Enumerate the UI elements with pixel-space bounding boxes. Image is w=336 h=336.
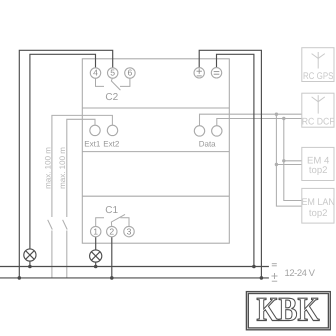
svg-text:C1: C1 <box>105 205 118 216</box>
data drop wire B to EM4/EMLAN <box>284 119 302 201</box>
svg-text:4: 4 <box>93 68 98 78</box>
svg-text:1: 1 <box>93 226 98 236</box>
svg-text:top2: top2 <box>309 165 328 176</box>
wire lamp E2 to bus1 <box>95 262 97 267</box>
ext cable A (to Ext2) with break <box>48 115 113 278</box>
junction dot bus2/terminal2 wire <box>110 276 114 280</box>
junction dot bus2/right outer rail <box>260 276 264 280</box>
junction dot bus1/lamp E1 <box>28 265 32 269</box>
svg-text:max. 100 m: max. 100 m <box>58 147 67 189</box>
svg-text:top2: top2 <box>309 208 328 219</box>
junction dot data B top <box>282 117 285 120</box>
junction dot data A top <box>275 113 278 116</box>
svg-text:RC DCF: RC DCF <box>302 116 335 127</box>
terminal ± <box>194 68 204 78</box>
divider row1/row2 <box>82 107 229 109</box>
box EM 4 top2 <box>302 147 334 180</box>
junction dot bus2/left rail <box>18 276 22 280</box>
junction dot bus1/lamp E2 <box>94 265 98 269</box>
data drop wire A to EM4/EMLAN <box>276 114 301 206</box>
lamp E1 <box>24 249 36 261</box>
lamp E2 <box>90 250 102 262</box>
box RC GPS <box>302 48 334 82</box>
terminal Ext1 <box>90 125 100 135</box>
junction dot branch A EM4 <box>275 163 278 166</box>
svg-text:max. 100 m: max. 100 m <box>43 147 52 189</box>
wire terminal1 to lamp E2 <box>95 237 97 250</box>
terminal 2 <box>107 226 117 237</box>
terminal Data2 <box>212 126 222 136</box>
terminal Ext2 <box>107 125 117 135</box>
svg-text:5: 5 <box>110 68 115 78</box>
terminal 3 <box>124 226 134 237</box>
ext cable B (to Ext1) with break <box>63 119 95 278</box>
antenna RC GPS <box>312 52 325 69</box>
svg-text:Data: Data <box>199 140 216 149</box>
data wire A to RC DCF <box>200 114 302 126</box>
junction dot bus1/right inner rail <box>252 265 256 269</box>
bus2 ± rail <box>0 277 269 279</box>
antenna RC DCF <box>312 95 325 113</box>
junction dot branch B EM4 <box>282 159 285 162</box>
svg-text:C2: C2 <box>105 92 118 103</box>
svg-text:EM LAN: EM LAN <box>301 197 335 208</box>
box RC DCF <box>302 93 334 127</box>
svg-text:Ext2: Ext2 <box>103 140 120 149</box>
rail symbol ± at bus2 end <box>272 273 278 281</box>
terminal Data1 <box>194 126 204 136</box>
svg-text:KBK: KBK <box>257 292 320 329</box>
terminal 1 <box>91 226 101 237</box>
terminal DC <box>211 68 221 78</box>
terminal 5 <box>108 68 118 79</box>
svg-text:6: 6 <box>128 68 133 78</box>
wire terminal4 to left inner rail (upper part) <box>30 54 96 249</box>
data branch A to EM4 <box>276 164 301 166</box>
contact C1 <box>96 214 129 226</box>
wire lamp E1 to bus1 <box>29 261 31 267</box>
logo KBK frame <box>246 292 330 330</box>
svg-text:RC GPS: RC GPS <box>303 71 334 82</box>
svg-text:Ext1: Ext1 <box>84 140 101 149</box>
svg-text:12-24 V: 12-24 V <box>285 268 316 279</box>
svg-text:2: 2 <box>109 226 114 236</box>
box EM LAN top2 <box>302 188 334 223</box>
data wire B to RC DCF <box>217 119 302 126</box>
wire terminal ± to right outer rail <box>199 50 261 278</box>
data branch B to EM4 <box>284 160 302 162</box>
wire terminal2 to bus2 <box>111 237 113 278</box>
divider row2/row3 <box>82 151 229 153</box>
contact C2 <box>96 78 130 90</box>
divider row3/row4 <box>82 195 229 197</box>
device outline U1 <box>82 59 229 243</box>
svg-text:3: 3 <box>127 226 132 236</box>
terminal 4 <box>90 68 100 79</box>
wire terminal ⎓ to right inner rail <box>217 54 254 266</box>
bus1 DC rail <box>0 266 269 268</box>
wire terminal5 to left outer rail <box>19 50 112 278</box>
terminal 6 <box>125 68 135 79</box>
rail symbol DC at bus1 end <box>272 264 277 266</box>
